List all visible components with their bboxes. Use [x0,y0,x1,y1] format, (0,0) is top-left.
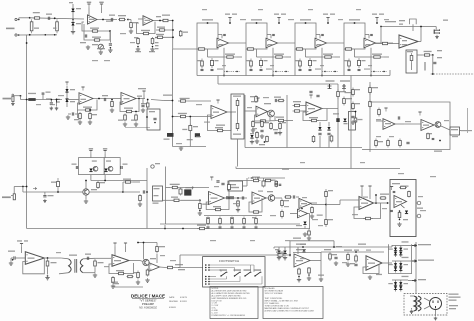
junction [182,228,184,230]
wire [256,49,258,57]
wire row2 bus [245,147,362,149]
wire TONE4 out [376,42,394,44]
label TONE1 pot value [202,19,213,20]
wire [229,18,231,24]
label R67 [340,91,346,92]
connector pre out [328,84,332,89]
resistor R76 [387,139,390,148]
capacitor [318,133,321,134]
wire [302,105,308,107]
wire [375,195,377,203]
resistor vol [410,53,413,63]
ground [255,139,259,143]
resistor R135 [298,268,301,276]
wire [259,177,285,179]
label R43 [83,107,92,108]
resistor box J3 [13,194,15,200]
label [300,244,306,245]
resistor R11 [137,37,140,45]
resistor R1 [33,17,41,19]
wire tone bottom bus [197,75,390,77]
resistor R125b [127,275,134,277]
junction dark [199,210,201,212]
junction [26,186,28,188]
label [437,50,442,51]
label R15 [156,34,164,35]
label P2 [149,111,155,112]
capacitor C120 [334,257,337,258]
value label [444,120,449,121]
label +15 [123,179,131,180]
label CHAN [234,269,242,271]
power flag stage [277,18,280,22]
junction wiper [373,71,374,72]
wire [354,49,356,57]
ground [310,214,314,218]
wire [365,34,369,36]
label R16 [183,32,188,33]
switch SW3 pivot [244,275,245,276]
junction dark [110,47,112,49]
wire aux link [293,252,321,254]
label [350,263,355,264]
junction [18,19,20,21]
label 17B 12V [293,238,301,239]
value label [214,186,219,187]
wire [223,48,225,76]
wire [104,154,106,158]
wire vertical x245 [244,95,246,148]
wire fs6 [210,281,240,283]
label C110 [8,251,15,252]
wire [44,192,46,195]
resistor R12 [151,37,154,45]
value label [284,206,289,207]
label [206,217,210,218]
wire TONE2 out [278,42,296,44]
label G2 right [404,264,409,265]
value label [336,246,342,247]
wire G1 leg [400,246,402,258]
capacitor CB1 [219,227,222,228]
power flag [113,243,116,247]
label U20 [368,263,375,264]
trimpot GAIN TRIM [98,44,103,49]
op-amp U20 [366,256,382,271]
label +15 [372,14,377,15]
ground [55,106,59,110]
wire [156,254,158,263]
switch SW1 lever [221,272,227,276]
wire bottom [173,146,207,148]
arrow wiper J3 [33,187,36,189]
label 250K [28,93,36,94]
capacitor CB3 [243,227,246,228]
resistor R9 [130,21,133,29]
label C5 [109,15,115,16]
label 120V 60HZ [449,294,459,295]
label 4 OHM [178,269,185,270]
resistor TONE3 shunt1 [299,59,302,69]
resistor R44 [79,112,82,120]
notes box 2 [263,287,323,319]
label TONE2 IC [268,44,273,45]
wire [80,191,83,193]
junction [376,22,378,24]
wire [140,261,143,262]
capacitor TONE2 c2 [260,69,263,70]
junction [256,22,258,24]
wire wiper bus [322,71,338,73]
capacitor C62b [275,99,276,102]
wire [311,204,326,206]
footswitch contact 5 dot b [208,278,210,280]
wire [173,116,179,118]
resistor R72 [352,88,355,97]
connector J2 ring [12,94,14,96]
rectifier diode G3a [399,282,402,285]
resistor R14 [158,29,166,31]
ground [108,48,112,52]
junction [54,34,56,36]
wire [104,175,106,181]
wire channel B input [21,99,63,101]
resistor TONE2 lower [273,56,286,58]
resistor TONE1 shunt1 [201,59,204,69]
rectifier diode G1a [399,248,402,251]
wire vertical x172 long [172,49,174,147]
label U2B [124,98,130,99]
JFET Q11 [108,166,113,171]
resistor RB2 [231,217,234,226]
label 3 WIRE [449,305,458,306]
label 1.5M [364,69,370,70]
wire [128,19,131,21]
wire to footswitch [174,267,203,269]
wire [267,34,271,36]
wire [226,276,228,279]
wire [239,276,241,281]
value label [204,122,210,123]
wire [188,100,211,102]
label [252,217,256,218]
switch jack contact [57,99,60,103]
value label [452,136,458,137]
wire U1B feedback [137,22,156,34]
label MASTER [385,21,396,22]
junction [289,254,291,256]
resistor R84 [123,181,133,183]
wire [404,123,421,125]
wire [380,27,382,44]
resistor R115 [399,186,407,188]
junction [172,29,174,31]
label [417,208,423,209]
label +15 [323,14,328,15]
resistor R114 [398,211,401,219]
value label [50,104,55,105]
label R100 4.7K [380,194,389,195]
wire [237,56,243,58]
power flag [418,112,421,116]
footswitch contact 2 dot b [208,267,210,269]
resistor TONE3 shunt2 [308,58,311,68]
value label [389,136,394,137]
label [231,184,236,185]
op-amp U2A [79,93,93,105]
junction dark [152,46,154,48]
junction plug pin [435,309,436,310]
label 68K [53,28,57,29]
label 50K [154,195,159,196]
wire [142,99,144,105]
switch SW2 pivot [234,275,235,276]
wire vertical x165 [165,167,167,225]
resistor R96 [237,200,240,208]
value label [352,214,358,215]
transformer T1 core [75,259,77,273]
junction dark [301,208,303,210]
wire [460,130,462,132]
capacitor C100 [390,210,393,211]
wire mixer top loop [410,19,417,24]
transistor Q2 [435,122,441,128]
junction dark [137,46,139,48]
connector spade 1 [412,244,417,247]
switch SW4 lever [255,272,261,276]
value label [130,42,135,43]
footswitch contact 6 dot a [205,281,207,283]
wire U15 feedback [23,258,45,274]
wire [180,187,209,189]
wire [47,268,49,275]
wire fs7 [210,283,262,285]
label 1M [51,182,56,183]
junction [127,19,129,21]
junction [387,202,389,204]
label [24,240,28,241]
label k [156,16,161,17]
label [358,119,363,120]
op-amp U16 [112,255,129,267]
resistor TONE3 input [295,48,304,50]
label [275,249,279,250]
capacitor TONE4 fb [370,34,373,35]
rectifier diode G1b [394,252,397,255]
junction dark [298,276,300,278]
junction [415,260,417,262]
wire [384,56,390,58]
label [155,42,159,43]
ground [11,102,15,106]
wire tap3 [408,280,416,282]
wire [335,56,341,58]
label OUT [443,20,448,21]
switch SW3 lever [245,272,251,276]
label MPSA18 [185,187,192,188]
resistor R111 [325,217,328,227]
label [215,60,219,61]
label TONE1 IC [219,44,224,45]
wire [376,120,383,122]
wire vertical x147 [146,168,148,215]
label R122 [51,262,57,263]
wire [410,310,414,312]
label R5 value [92,37,101,38]
resistor mixer in [381,42,389,44]
junction [143,242,145,244]
label C44 [131,120,136,121]
label REVERB [220,269,228,271]
resistor R62d [279,122,282,130]
resistor R2 1M [30,19,33,33]
label TONE3 IC [317,44,322,45]
label R95 [202,204,208,205]
wire [374,202,388,204]
resistor R54 [216,129,224,131]
TONE2 pot loop wire [246,23,267,49]
resistor R94 [214,208,222,210]
resistor R60a [259,120,267,122]
label U2A [81,99,87,100]
resistor box J2 [12,96,14,101]
resistor R75 [375,139,378,148]
capacitor C60 [260,130,263,131]
wire [327,18,329,24]
wire [228,181,230,199]
value label [296,225,302,226]
ground [71,30,75,34]
capacitor C62 [316,95,319,96]
label [155,163,160,164]
wire [310,260,321,262]
wire reverb send [431,73,474,75]
junction [85,180,87,182]
wire [59,273,69,274]
wire [261,276,263,284]
resistor R82 [57,178,60,190]
label 20K [159,246,165,247]
junction [278,22,280,24]
diode D9 [327,127,330,130]
value label [58,95,64,96]
resistor R97b [228,184,231,191]
junction [172,36,174,38]
rectifier diode G2a [394,263,397,266]
resistor TONE1 shunt2 [210,58,213,68]
junction dark [264,141,266,143]
ground mains [410,310,414,314]
op-amp U13 [359,197,374,210]
ground [307,236,311,240]
wire [294,49,296,76]
capacitor TONE1 c1 [201,69,204,70]
capacitor C81 [143,190,144,193]
junction [257,177,258,178]
wire [424,306,430,309]
junction wiper [324,71,325,72]
rectifier diode G1a [394,248,397,251]
junction wiper [285,71,286,72]
resistor R74 [378,108,381,117]
wire [13,95,21,97]
wire U6A feedback [255,115,271,121]
power flag [256,98,259,102]
label [155,48,159,49]
wire [355,56,371,58]
ground [93,273,97,277]
value label [92,60,98,61]
wire [138,18,143,20]
wire U20 feedback [363,264,379,274]
transistor arrow U14 [401,205,405,208]
value label [420,210,426,211]
wire vertical x173 [172,21,174,50]
ground [251,128,255,132]
label [437,57,442,58]
capacitor C110 [14,256,15,259]
label PWR AMP IN [340,80,350,81]
label [133,272,137,273]
resistor TONE2 input [246,48,255,50]
capacitor C80 [43,196,46,197]
value label [270,65,274,66]
zener D15b [302,249,305,252]
junction wiper [334,71,335,72]
wire rectifier routing [388,244,411,273]
wire wiper bus [371,71,387,73]
capacitor TONE2 c1 [250,69,253,70]
resistor R93c [275,180,278,187]
junction [272,75,274,77]
wire stub [164,225,166,229]
value label [210,240,216,241]
label [100,182,105,183]
svg-text:FOOTSWITCH: FOOTSWITCH [219,259,239,263]
value label [222,65,226,66]
wire upper path [229,180,252,182]
value label [258,9,263,10]
resistor R87 [308,229,311,237]
wire [270,35,272,39]
resistor R69a [312,135,315,143]
wire G2 leg [400,261,402,273]
label P4 500K [230,187,239,188]
ground [277,256,281,260]
label Q1 [164,139,170,140]
label R91 [171,197,178,198]
wire [61,257,68,260]
label [449,308,456,309]
LED D10 [89,169,92,172]
label U1A [89,19,95,20]
resistor R100 [281,199,284,208]
label G3 left [388,283,393,284]
wire G3 top [392,279,408,281]
label R14 [157,27,165,28]
label R59 [250,96,255,97]
wire wiper bus [273,71,289,73]
junction [29,34,31,36]
value label [308,9,313,10]
wire [235,167,237,169]
resistor RB3 [243,217,246,226]
label [355,89,360,90]
footswitch box [203,257,265,287]
wire [410,295,414,297]
footswitch contact 1 dot b [208,264,210,266]
resistor R5 [93,39,101,41]
